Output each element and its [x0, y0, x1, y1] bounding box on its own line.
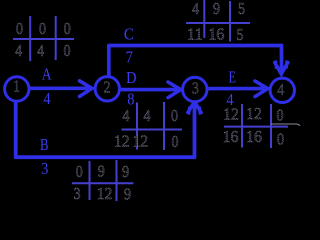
value 8 (duration of D): [127, 90, 134, 108]
svg-text:D: D: [126, 69, 136, 87]
wire activity B path 1-3 (down, right, up): [16, 102, 201, 158]
svg-text:4: 4: [37, 42, 44, 60]
svg-text:4: 4: [122, 107, 129, 125]
table node4 numbers row2: [222, 128, 284, 149]
svg-text:12: 12: [223, 106, 239, 123]
svg-text:16: 16: [222, 128, 238, 146]
svg-text:4: 4: [192, 0, 199, 18]
svg-text:0: 0: [277, 130, 284, 148]
svg-text:4: 4: [15, 42, 22, 60]
svg-text:0: 0: [76, 163, 83, 181]
svg-text:C: C: [124, 26, 134, 44]
svg-text:9: 9: [98, 162, 105, 180]
table C numbers row1: [192, 0, 245, 18]
svg-text:12: 12: [132, 133, 148, 150]
value 3 (duration of B): [41, 160, 48, 178]
svg-text:4: 4: [277, 81, 284, 99]
svg-text:0: 0: [64, 20, 71, 38]
table node1 times (0 0 0 / 4 4 0) grid: [13, 16, 74, 61]
table B numbers row1: [76, 162, 130, 181]
svg-text:0: 0: [39, 20, 46, 38]
value 7 (duration of C): [126, 48, 133, 66]
svg-text:0: 0: [276, 106, 283, 124]
svg-text:7: 7: [126, 48, 133, 66]
wire activity C path 2-4 (up, right, down): [109, 46, 288, 76]
svg-text:12: 12: [97, 186, 113, 203]
svg-text:11: 11: [187, 25, 203, 44]
svg-text:12: 12: [246, 106, 262, 123]
label E: [228, 69, 235, 87]
svg-text:9: 9: [213, 0, 220, 18]
table activity B times (0 9 9 / 3 12 9) grid: [72, 160, 134, 201]
table D numbers row2: [114, 133, 179, 151]
svg-text:0: 0: [171, 107, 178, 125]
svg-text:E: E: [228, 69, 235, 87]
wire activity A arrow 1-2: [30, 81, 93, 97]
svg-text:9: 9: [124, 185, 131, 203]
table C numbers row2: [187, 24, 244, 44]
table node1 numbers row1: [16, 20, 71, 38]
svg-text:16: 16: [246, 128, 262, 146]
table B numbers row2: [73, 185, 131, 204]
wire activity E arrow 3-4: [209, 81, 268, 97]
svg-text:16: 16: [208, 24, 224, 43]
node 2: [95, 77, 119, 101]
svg-text:0: 0: [171, 133, 178, 151]
table activity D times (4 4 0 / 12 12 0) grid: [122, 102, 183, 150]
svg-text:12: 12: [114, 133, 130, 150]
node 3: [183, 77, 207, 101]
svg-text:2: 2: [103, 78, 110, 96]
svg-text:3: 3: [41, 160, 48, 178]
svg-text:0: 0: [63, 42, 70, 60]
svg-text:3: 3: [192, 79, 199, 97]
table D numbers row1: [122, 107, 178, 125]
svg-text:5: 5: [238, 0, 245, 18]
svg-text:A: A: [42, 65, 52, 84]
table activity C times (4 9 5 / 11 16 5) grid: [186, 0, 250, 42]
value 4 (duration of E): [226, 91, 233, 109]
svg-text:0: 0: [16, 20, 23, 38]
table node4 times (12 12 0 / 16 16 0) grid: [224, 104, 300, 148]
node 1: [5, 77, 29, 101]
node 4: [270, 78, 294, 102]
svg-text:4: 4: [43, 90, 50, 108]
table node4 numbers row1: [223, 106, 284, 125]
label B: [40, 136, 48, 154]
table node1 numbers row2: [15, 42, 71, 60]
svg-text:1: 1: [13, 77, 20, 95]
value 4 (duration of A): [43, 90, 50, 108]
label C: [124, 26, 134, 44]
svg-text:9: 9: [122, 163, 129, 181]
svg-text:3: 3: [73, 185, 80, 203]
wire activity D arrow 2-3: [121, 82, 181, 98]
svg-text:B: B: [40, 136, 48, 154]
label D: [126, 69, 136, 87]
label A: [42, 65, 52, 84]
svg-text:4: 4: [143, 107, 150, 125]
svg-text:5: 5: [236, 26, 243, 44]
